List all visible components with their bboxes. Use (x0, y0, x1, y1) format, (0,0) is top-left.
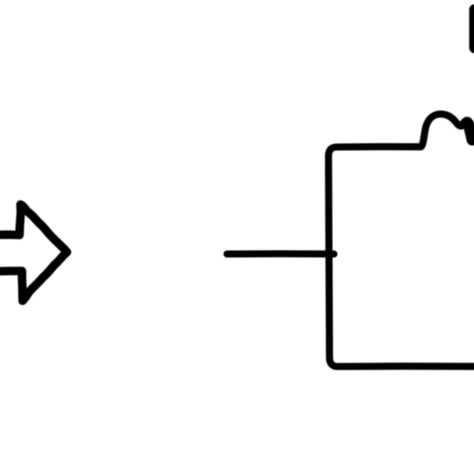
block arrow (input arrow, cut off at left edge) (0, 205, 67, 301)
stroke end blob at right image edge (cut-off continuation of bump) (470, 127, 473, 140)
wire (input lead into box) (227, 250, 334, 257)
top-right vertical bar (cut off at right edge) (469, 4, 474, 53)
box (component body with bump on top edge, cut off at right edge) (329, 114, 474, 367)
